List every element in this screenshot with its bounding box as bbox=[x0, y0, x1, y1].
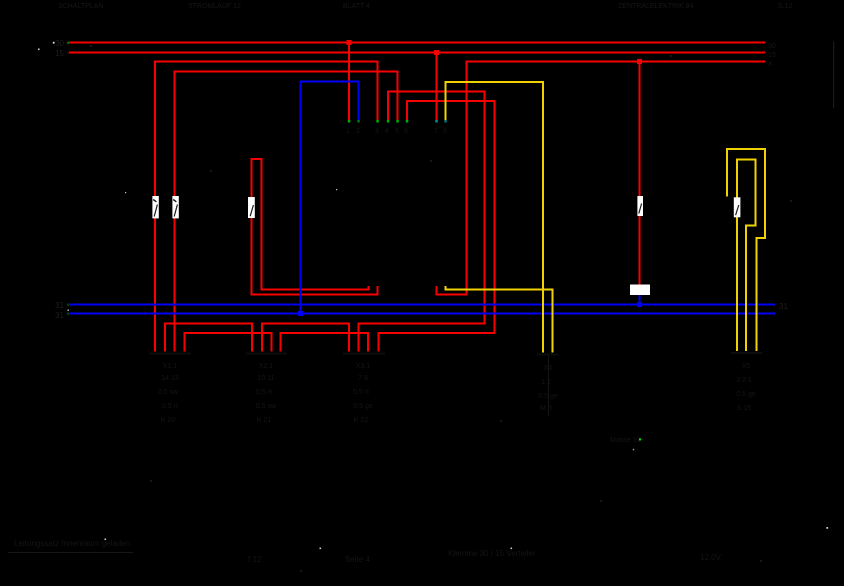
wire red pin6 loop bbox=[379, 101, 495, 352]
wire blue pin2 to bus bbox=[301, 82, 359, 314]
wire red ECU pin to bus X bbox=[437, 62, 766, 295]
wire red jumper 4 bbox=[281, 333, 369, 352]
connector label X3 (dim) bbox=[353, 363, 373, 424]
svg-text:S 15: S 15 bbox=[737, 405, 752, 412]
wire red switch S2 branch bbox=[175, 72, 398, 352]
svg-text:f 12: f 12 bbox=[248, 555, 262, 564]
node junction on bus X bbox=[637, 59, 642, 64]
svg-text:8: 8 bbox=[443, 128, 447, 135]
svg-text:3 2 1: 3 2 1 bbox=[736, 377, 752, 384]
pin labels top row (dim) bbox=[346, 128, 447, 135]
node junction on bus 15 bbox=[434, 50, 439, 55]
node green marker bbox=[639, 438, 641, 440]
svg-text:Seite 4: Seite 4 bbox=[345, 555, 370, 564]
node blue junction fuse bbox=[637, 302, 642, 307]
wire red jumper 1 bbox=[165, 324, 252, 352]
svg-text:30: 30 bbox=[768, 43, 776, 50]
node junction on bus 30 bbox=[347, 40, 352, 45]
svg-text:BLATT 4: BLATT 4 bbox=[343, 3, 370, 10]
svg-text:SCHALTPLAN: SCHALTPLAN bbox=[58, 3, 103, 10]
connector label X4 (dim) bbox=[538, 365, 558, 412]
svg-text:X3.1: X3.1 bbox=[356, 363, 371, 370]
wire blue bus 31a bbox=[69, 304, 775, 306]
svg-text:31: 31 bbox=[779, 302, 788, 311]
switch S4 bbox=[637, 196, 643, 216]
svg-text:15: 15 bbox=[55, 49, 64, 58]
svg-text:0.5 rt: 0.5 rt bbox=[256, 389, 272, 396]
svg-text:1: 1 bbox=[346, 128, 350, 135]
status bar text (dim) bbox=[14, 539, 722, 564]
switch S1 bbox=[152, 196, 158, 218]
svg-text:X: X bbox=[768, 61, 773, 68]
switch S5 bbox=[734, 197, 741, 217]
wire blue bus 31b bbox=[69, 313, 775, 315]
node green tips bus starts bbox=[67, 42, 69, 316]
dark connector strips under bottom pins bbox=[149, 352, 762, 356]
status underline bbox=[8, 552, 133, 553]
svg-text:X2.1: X2.1 bbox=[259, 363, 274, 370]
bright speck left of bus bbox=[53, 42, 55, 44]
svg-text:X1.1: X1.1 bbox=[163, 363, 178, 370]
wire yellow pin8 loop bbox=[446, 82, 544, 353]
svg-text:0.5 rt: 0.5 rt bbox=[353, 389, 369, 396]
svg-text:0.5 ge: 0.5 ge bbox=[353, 403, 373, 410]
svg-text:10 11: 10 11 bbox=[258, 375, 275, 382]
connector label X5 (dim) bbox=[736, 363, 756, 412]
switch S2 bbox=[172, 196, 178, 218]
wire yellow ECU bottom loop bbox=[446, 286, 553, 353]
svg-text:Leitungssatz Innenraum geladen: Leitungssatz Innenraum geladen bbox=[14, 539, 130, 548]
wire red pin5 loop bbox=[359, 92, 485, 352]
svg-text:ZENTRALELEKTRIK 84: ZENTRALELEKTRIK 84 bbox=[618, 3, 694, 10]
svg-text:0.5 sw: 0.5 sw bbox=[256, 403, 277, 410]
svg-text:5: 5 bbox=[395, 128, 399, 135]
svg-text:STROMLAUF 12: STROMLAUF 12 bbox=[188, 3, 241, 10]
svg-text:0.5 sw: 0.5 sw bbox=[158, 389, 179, 396]
wire red pin7 to bus15 bbox=[436, 53, 438, 122]
svg-text:2: 2 bbox=[356, 128, 360, 135]
wire red bus 15 bbox=[69, 52, 765, 54]
wire red switch S1 branch bbox=[155, 62, 378, 352]
wire yellow outer right bbox=[727, 149, 765, 351]
connector label X2 (dim) bbox=[256, 363, 277, 424]
svg-text:4: 4 bbox=[385, 128, 389, 135]
wire red jumper 2 bbox=[262, 324, 349, 352]
svg-text:31: 31 bbox=[55, 311, 64, 320]
svg-text:K 20: K 20 bbox=[161, 417, 176, 424]
svg-text:X5: X5 bbox=[742, 363, 751, 370]
switch S3 bbox=[248, 197, 255, 218]
svg-text:14 13: 14 13 bbox=[161, 375, 179, 382]
svg-text:3: 3 bbox=[375, 128, 379, 135]
wire red S3 loop bbox=[252, 159, 378, 295]
wire yellow inner right bbox=[737, 160, 756, 352]
faint noise dots bbox=[90, 45, 792, 572]
wire red pin1 to bus30 bbox=[348, 43, 350, 122]
svg-text:Masse 31: Masse 31 bbox=[610, 437, 640, 444]
svg-text:K 22: K 22 bbox=[354, 417, 369, 424]
svg-text:30: 30 bbox=[55, 39, 64, 48]
svg-text:7 8: 7 8 bbox=[358, 375, 368, 382]
wire blue fuse to bus bbox=[639, 295, 641, 305]
svg-text:0.5 ge: 0.5 ge bbox=[736, 391, 756, 398]
svg-text:12.0V: 12.0V bbox=[700, 553, 722, 562]
node blue junction bbox=[298, 311, 303, 316]
svg-text:31: 31 bbox=[55, 301, 64, 310]
top dim fragments bbox=[58, 3, 793, 10]
svg-text:0.5 rt: 0.5 rt bbox=[162, 403, 178, 410]
svg-text:1 2: 1 2 bbox=[541, 379, 551, 386]
wire red jumper 3 bbox=[185, 333, 272, 352]
wire red bus 30 bbox=[69, 42, 765, 44]
component box K1 (right, dark outline) bbox=[768, 42, 834, 109]
wire red S4 drop bbox=[639, 62, 641, 286]
svg-text:S.12: S.12 bbox=[778, 3, 793, 10]
svg-text:7: 7 bbox=[434, 128, 438, 135]
fuse F1 bbox=[630, 285, 650, 296]
node pin dots top row bbox=[348, 120, 447, 123]
connector label X1 (dim) bbox=[158, 363, 179, 424]
svg-text:K 21: K 21 bbox=[257, 417, 272, 424]
svg-text:6: 6 bbox=[404, 128, 408, 135]
svg-text:Klemme 30 / 15 Verteiler: Klemme 30 / 15 Verteiler bbox=[448, 549, 536, 558]
dark connector stem bbox=[548, 356, 549, 416]
svg-text:15: 15 bbox=[768, 52, 776, 59]
svg-text:M 3: M 3 bbox=[540, 405, 552, 412]
